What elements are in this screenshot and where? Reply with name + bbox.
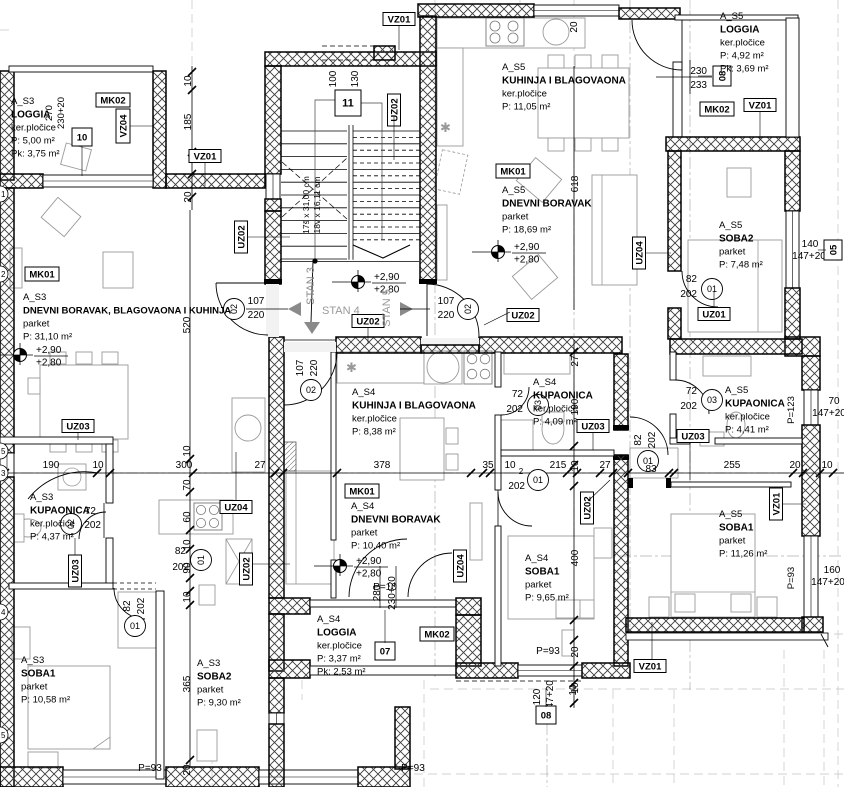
wall A_S5 right segment 3 [802, 356, 820, 390]
svg-text:160: 160 [824, 565, 841, 576]
svg-text:P=93: P=93 [786, 567, 797, 589]
svg-text:82: 82 [686, 274, 698, 285]
svg-text:UZ02: UZ02 [241, 557, 252, 580]
svg-text:35: 35 [482, 460, 494, 471]
stair riser dashed right flight [353, 149, 420, 151]
label 08 bottom [536, 706, 556, 724]
door leaf stan4 entry [283, 352, 285, 405]
partition A_S4 hall-kitchen lower [331, 560, 336, 598]
svg-text:UZ03: UZ03 [70, 559, 81, 582]
stair central rail right line [352, 125, 354, 260]
svg-text:147+20: 147+20 [811, 577, 844, 588]
svg-text:+2,80: +2,80 [36, 358, 62, 369]
svg-text:P=93: P=93 [138, 763, 162, 774]
svg-text:+2,90: +2,90 [514, 242, 540, 253]
stair tread right flight [353, 130, 420, 132]
svg-text:20: 20 [570, 646, 581, 658]
svg-text:4: 4 [1, 608, 6, 617]
partition A_S3 kupaonica east lower [106, 538, 113, 584]
svg-text:KUHINJA I BLAGOVAONA: KUHINJA I BLAGOVAONA [352, 401, 476, 412]
stair tread right flight [353, 181, 420, 183]
svg-text:11: 11 [342, 97, 354, 109]
svg-text:DNEVNI BORAVAK: DNEVNI BORAVAK [502, 199, 592, 210]
label 11 stair [335, 90, 361, 116]
svg-text:202: 202 [506, 404, 523, 415]
arrow right stan5 [400, 302, 413, 316]
svg-text:05: 05 [828, 244, 839, 255]
door arc stan4 entry [284, 352, 337, 405]
svg-text:P=123: P=123 [786, 396, 797, 424]
wall loggia A_S4 top-left corner [269, 598, 310, 614]
svg-text:2: 2 [519, 467, 524, 476]
stair landing bottom line [281, 261, 419, 263]
label MK02 A_S4 loggia [420, 627, 454, 641]
svg-text:UZ02: UZ02 [236, 225, 247, 248]
parapet wall loggia A_S5 right [786, 18, 799, 137]
svg-text:Pk: 3,75 m²: Pk: 3,75 m² [11, 149, 60, 160]
stair walking line left [315, 100, 335, 261]
stair tread left flight [281, 181, 347, 183]
parapet loggia A_S3 top [9, 66, 153, 72]
svg-text:parket: parket [351, 528, 378, 539]
wall A_S3 left exterior lower [0, 477, 14, 787]
svg-text:02: 02 [306, 385, 316, 395]
arrow left stan3 [288, 302, 301, 316]
svg-text:P: 4,37 m²: P: 4,37 m² [30, 532, 74, 543]
door arc A_S4 soba1 [408, 553, 452, 597]
wall loggia A_S4 left [269, 614, 284, 671]
stair walk line start dot [312, 258, 317, 263]
svg-text:82: 82 [175, 546, 187, 557]
svg-text:A_S5: A_S5 [720, 11, 743, 22]
svg-text:A_S4: A_S4 [317, 614, 340, 625]
partition A_S4 kitchen-kupaonica upper [495, 352, 501, 387]
level mark A_S3 +2,90 [0, 343, 68, 369]
wall A_S4 south segment 2 [582, 663, 630, 678]
wall A_S5 soba1 south [626, 618, 804, 632]
svg-text:300: 300 [176, 460, 193, 471]
leader lines [75, 26, 826, 707]
svg-text:ker.pločice: ker.pločice [352, 414, 397, 425]
furniture A_S3 dining table with chairs [40, 365, 128, 439]
svg-text:ker.pločice: ker.pločice [725, 412, 770, 423]
label VZ01 A_S5 loggia [744, 99, 776, 112]
label VZ04 [116, 109, 130, 143]
svg-text:UZ02: UZ02 [582, 496, 593, 519]
svg-text:A_S4: A_S4 [533, 377, 556, 388]
svg-text:MK01: MK01 [349, 486, 375, 497]
svg-text:202: 202 [84, 520, 101, 531]
stair tread left flight [281, 156, 347, 158]
svg-text:01: 01 [533, 475, 543, 485]
furniture A_S5 sofa and armchair [592, 175, 637, 285]
label UZ02 A_S4 [581, 492, 594, 524]
svg-text:230: 230 [690, 66, 707, 77]
svg-text:A_S4: A_S4 [352, 387, 375, 398]
svg-text:parket: parket [23, 319, 50, 330]
furniture A_S3 bathroom toilet and washer [58, 464, 86, 490]
vertical dim line x=574 [573, 66, 575, 310]
svg-text:SOBA1: SOBA1 [21, 669, 56, 680]
svg-text:MK02: MK02 [704, 104, 729, 115]
svg-text:220: 220 [309, 359, 320, 376]
svg-text:ker.pločice: ker.pločice [502, 89, 547, 100]
svg-text:parket: parket [502, 212, 529, 223]
label MK01 A_S5 [496, 164, 530, 178]
svg-text:P: 3,37 m²: P: 3,37 m² [317, 654, 361, 665]
svg-text:UZ04: UZ04 [634, 241, 645, 265]
stair riser dashed right flight [353, 162, 420, 164]
svg-text:UZ02: UZ02 [389, 98, 400, 121]
partition A_S4 hall-kitchen upper [331, 352, 336, 540]
svg-text:P=93: P=93 [401, 763, 425, 774]
svg-text:107: 107 [295, 359, 306, 376]
svg-text:A_S3: A_S3 [21, 655, 44, 666]
window A_S5 soba2 right [786, 211, 799, 288]
parapet loggia A_S5 top [675, 15, 798, 20]
svg-text:Pk: 2,53 m²: Pk: 2,53 m² [317, 667, 366, 678]
stair tread left flight [281, 220, 347, 222]
wall building top right segment [619, 8, 680, 19]
stair riser dashed right flight [353, 136, 420, 138]
svg-text:LOGGIA: LOGGIA [11, 110, 50, 121]
furniture A_S4 dining table [400, 418, 444, 480]
svg-text:70: 70 [828, 396, 840, 407]
level mark stair +2,90 [332, 270, 406, 296]
svg-text:400: 400 [570, 549, 581, 566]
svg-text:LOGGIA: LOGGIA [720, 25, 759, 36]
svg-text:STAN 5: STAN 5 [381, 289, 393, 327]
svg-text:P: 9,65 m²: P: 9,65 m² [525, 593, 569, 604]
label MK01 A_S3 [25, 267, 59, 281]
wall loggia A_S4 top-right corner [456, 598, 481, 615]
svg-text:27: 27 [254, 460, 266, 471]
svg-text:82: 82 [633, 434, 644, 446]
svg-text:STAN 4: STAN 4 [322, 305, 360, 317]
svg-text:233: 233 [690, 80, 707, 91]
svg-text:72: 72 [512, 389, 524, 400]
svg-text:A_S3: A_S3 [11, 96, 34, 107]
dim line A_S4 loggia verticals [379, 566, 381, 608]
window stair core left wall [266, 174, 280, 199]
grid bubble 4 [0, 604, 8, 620]
wall A_S3 bottom pier [166, 767, 259, 787]
label MK02 A_S3 loggia [96, 93, 130, 107]
furniture A_S5 hall closet [630, 448, 678, 478]
partition A_S5 hall-soba1 [671, 482, 791, 487]
door arc A_S5 kupaonica [675, 380, 709, 414]
svg-text:P=10: P=10 [373, 582, 397, 593]
svg-text:UZ02: UZ02 [356, 316, 379, 327]
svg-text:01: 01 [707, 284, 717, 294]
svg-text:72: 72 [686, 386, 698, 397]
arrow line stan3 [246, 308, 288, 310]
wall A_S5 dnevni-soba2 lower [668, 308, 681, 339]
label UZ01 A_S5 soba2 [698, 308, 730, 321]
wall south of landing left part [336, 337, 421, 353]
grid bubble 2 [0, 266, 8, 282]
svg-text:LOGGIA: LOGGIA [317, 628, 356, 639]
svg-text:+2,90: +2,90 [356, 556, 382, 567]
stair tread right flight [353, 220, 420, 222]
furniture A_S5 soba1 bed and nightstands [671, 514, 755, 617]
svg-text:02: 02 [463, 304, 473, 314]
svg-text:P: 11,05 m²: P: 11,05 m² [502, 102, 550, 113]
door leaf stan3 entry [216, 282, 268, 284]
stair treads and rails [281, 125, 420, 262]
svg-text:A_S5: A_S5 [502, 185, 525, 196]
label UZ02 A_S3 [240, 553, 253, 585]
svg-text:ker.pločice: ker.pločice [30, 519, 75, 530]
svg-text:✱: ✱ [440, 120, 451, 135]
svg-text:KUPAONICA: KUPAONICA [533, 391, 593, 402]
partition A_S4 soba1 west lower [495, 526, 501, 666]
svg-text:20: 20 [182, 764, 193, 776]
furniture A_S5 kitchen top counter stove sink [437, 18, 585, 48]
furniture A_S3 armchairs and coffee table [41, 197, 81, 236]
dashed opening hall [113, 582, 156, 584]
svg-text:parket: parket [197, 685, 224, 696]
svg-text:255: 255 [724, 460, 741, 471]
svg-text:107: 107 [438, 296, 455, 307]
svg-text:365: 365 [182, 675, 193, 692]
wall below VZ01 notch horizontal [166, 174, 265, 188]
door arc A_S3 hall [114, 588, 145, 619]
door leaf A_S5 loggia door [681, 20, 683, 70]
wall A_S3 bottom segment 2 [358, 767, 410, 787]
svg-text:01: 01 [130, 621, 140, 631]
svg-text:P: 10,58 m²: P: 10,58 m² [21, 695, 70, 706]
wall building top left of window [418, 4, 534, 17]
svg-text:618: 618 [570, 175, 581, 192]
grid bubbles left edge [0, 186, 8, 743]
svg-text:+2,90: +2,90 [374, 272, 400, 283]
wall A_S5 bottom-right corner [802, 617, 823, 632]
svg-text:202: 202 [680, 289, 697, 300]
landing south opening line [284, 339, 336, 341]
partition A_S3 kupaonica north [0, 437, 113, 444]
svg-text:KUPAONICA: KUPAONICA [30, 506, 90, 517]
svg-text:A_S3: A_S3 [30, 492, 53, 503]
svg-text:+2,80: +2,80 [356, 569, 382, 580]
svg-text:202: 202 [647, 431, 658, 448]
svg-text:230+20: 230+20 [56, 97, 67, 129]
svg-text:ker.pločice: ker.pločice [11, 123, 56, 134]
svg-text:DNEVNI BORAVAK: DNEVNI BORAVAK [351, 515, 441, 526]
svg-text:A_S4: A_S4 [525, 553, 548, 564]
svg-text:P: 10,40 m²: P: 10,40 m² [351, 541, 400, 552]
label 07 A_S4 loggia [375, 642, 395, 660]
parapet below A_S5 south wall [626, 633, 828, 640]
label 08 top right [713, 66, 731, 86]
svg-text:190: 190 [43, 460, 60, 471]
label 05 right edge [824, 240, 842, 260]
svg-text:+2,80: +2,80 [514, 255, 540, 266]
svg-text:A_S5: A_S5 [502, 62, 525, 73]
vertical dim line x=192 upper notch [191, 66, 193, 210]
svg-text:UZ02: UZ02 [511, 310, 534, 321]
window A_S5 kupaonica right [804, 390, 818, 425]
stair tread left flight [281, 168, 347, 170]
svg-text:1: 1 [1, 190, 6, 199]
stair tread right flight [353, 156, 420, 158]
wall stair core left mid piece [265, 199, 281, 211]
door post A_S5 soba1 right [666, 478, 671, 488]
svg-text:ker.pločice: ker.pločice [720, 38, 765, 49]
svg-text:10: 10 [77, 132, 88, 143]
svg-text:215: 215 [550, 460, 567, 471]
stair riser dashed right flight [353, 188, 420, 190]
door arc A_S3 kupaonica north door [28, 472, 98, 499]
svg-text:A_S3: A_S3 [23, 292, 46, 303]
wall loggia A_S3 left exterior [0, 71, 14, 180]
svg-text:01: 01 [196, 555, 206, 565]
door arc stan5 entry [427, 284, 479, 336]
stair tread left flight [281, 130, 347, 132]
window A_S3 bottom 2 [259, 770, 358, 784]
wall loggia A_S5 bottom / soba2 top [666, 137, 800, 151]
svg-text:✱: ✱ [346, 360, 357, 375]
svg-text:P=93: P=93 [536, 646, 560, 657]
stair riser dashed right flight [353, 226, 420, 228]
svg-text:VZ01: VZ01 [749, 100, 772, 111]
dashed canopy line above stair [322, 45, 374, 47]
svg-text:10: 10 [183, 75, 194, 87]
label UZ04 A_S3 kitchen [220, 501, 252, 514]
door cap divider lower [613, 455, 629, 460]
parapet end tick [821, 634, 828, 647]
svg-text:Pk: 3,69 m²: Pk: 3,69 m² [720, 64, 769, 75]
svg-text:SOBA1: SOBA1 [525, 567, 560, 578]
label UZ03 A_S3 kupaonica [62, 420, 94, 433]
svg-text:UZ03: UZ03 [581, 421, 604, 432]
furniture A_S5 soba2 bed and nightstand [688, 240, 782, 332]
stair walking line right [361, 103, 382, 240]
svg-text:A_S3: A_S3 [197, 658, 220, 669]
grid bubble 5 [0, 443, 8, 459]
stair tread left flight [281, 258, 347, 260]
door arcs [28, 20, 718, 619]
main horizontal dimension line y=473 [0, 472, 844, 474]
stair direction V arrow [353, 245, 410, 258]
window loggia A_S4 top [310, 600, 456, 607]
svg-text:P: 4,92 m²: P: 4,92 m² [720, 51, 764, 62]
label VZ01 bottom [634, 660, 666, 673]
svg-text:10: 10 [568, 684, 579, 696]
label VZ01 right window [770, 488, 783, 520]
svg-text:P: 18,69 m²: P: 18,69 m² [502, 225, 551, 236]
gap A_S3 left wall at dim line [0, 453, 14, 477]
wall A_S4 south segment 1 [456, 663, 518, 678]
level mark A_S4 +2,90 [314, 554, 388, 580]
svg-text:60: 60 [182, 511, 193, 523]
stair tread right flight [353, 194, 420, 196]
svg-text:520: 520 [182, 316, 193, 333]
wall stair core top [265, 52, 436, 66]
svg-text:SOBA1: SOBA1 [719, 523, 754, 534]
partition A_S3 kupaonica east upper [106, 444, 113, 503]
wall loggia A_S4 bottom-left corner [269, 660, 310, 678]
wall cap stair right [419, 279, 437, 284]
svg-text:parket: parket [719, 247, 746, 258]
svg-text:10: 10 [92, 460, 104, 471]
door arc A_S5 kitchen to loggia [632, 20, 682, 70]
svg-text:20: 20 [569, 21, 580, 33]
label UZ03 A_S3 lower [69, 555, 82, 587]
stair tread right flight [353, 168, 420, 170]
label UZ03 A_S5 kupaonica [677, 430, 709, 443]
partition A_S4 kupaonica south [501, 450, 614, 456]
svg-text:202: 202 [136, 597, 147, 614]
label UZ03 A_S4 kupaonica [577, 420, 609, 433]
wall A_S3 bottom segment 1 [0, 767, 63, 787]
parapet loggia A_S4 bottom [310, 666, 456, 675]
svg-text:parket: parket [21, 682, 48, 693]
svg-text:+2,90: +2,90 [36, 345, 62, 356]
door arc A_S3 kupaonica east [79, 512, 106, 539]
svg-text:07: 07 [380, 646, 391, 657]
stair tread right flight [353, 207, 420, 209]
label MK02 A_S5 loggia [700, 102, 734, 116]
wall divider A_S4-A_S5 middle [614, 354, 628, 430]
svg-text:ker.pločice: ker.pločice [533, 404, 578, 415]
svg-text:220: 220 [438, 310, 455, 321]
stair tread left flight [281, 245, 347, 247]
label UZ02 stan5 [507, 309, 539, 322]
stair tread left flight [281, 143, 347, 145]
wall stair core left lower [265, 211, 281, 284]
half wall under stan5 door [421, 345, 479, 353]
door arc A_S5 entry hall [630, 417, 668, 455]
furniture A_S3 soba1 bed [28, 666, 110, 749]
window building top [534, 5, 619, 16]
svg-text:A_S5: A_S5 [725, 385, 748, 396]
svg-text:UZ03: UZ03 [66, 421, 89, 432]
stair tread left flight [281, 207, 347, 209]
svg-text:107: 107 [248, 296, 265, 307]
label VZ01 notch [189, 150, 221, 163]
door leaf A_S4 soba1 [497, 490, 499, 526]
svg-text:SOBA2: SOBA2 [197, 672, 232, 683]
svg-text:5: 5 [1, 447, 6, 456]
furniture A_S5 dining table with chairs [538, 68, 629, 138]
svg-text:130: 130 [350, 70, 361, 87]
svg-text:VZ01: VZ01 [639, 661, 662, 672]
window A_S4 soba1 south [518, 665, 582, 676]
partition A_S4 kupaonica-soba1 mid [495, 415, 501, 490]
svg-text:SOBA2: SOBA2 [719, 234, 754, 245]
wall A_S5 right segment 4 [802, 425, 820, 536]
stair dashed walking lines [282, 158, 347, 219]
svg-text:3: 3 [1, 469, 6, 478]
door arc stan3 entry [216, 283, 268, 335]
door arc A_S5 soba2 [682, 271, 718, 307]
wall mid lower to bottom [269, 724, 284, 787]
svg-text:147+20: 147+20 [812, 408, 844, 419]
stair tread left flight [281, 194, 347, 196]
partition A_S3 kupaonica south [9, 583, 113, 589]
svg-text:27: 27 [570, 355, 581, 367]
furniture A_S4 bathroom vanity toilet shower [504, 353, 570, 374]
vertical dim line x=690 top [689, 60, 691, 94]
svg-text:20: 20 [789, 460, 801, 471]
svg-text:378: 378 [374, 460, 391, 471]
svg-text:UZ03: UZ03 [681, 431, 704, 442]
svg-text:10: 10 [504, 460, 516, 471]
svg-text:VZ01: VZ01 [194, 151, 217, 162]
svg-text:18v x 16,11 cm: 18v x 16,11 cm [312, 176, 322, 233]
stair riser dashed right flight [353, 213, 420, 215]
